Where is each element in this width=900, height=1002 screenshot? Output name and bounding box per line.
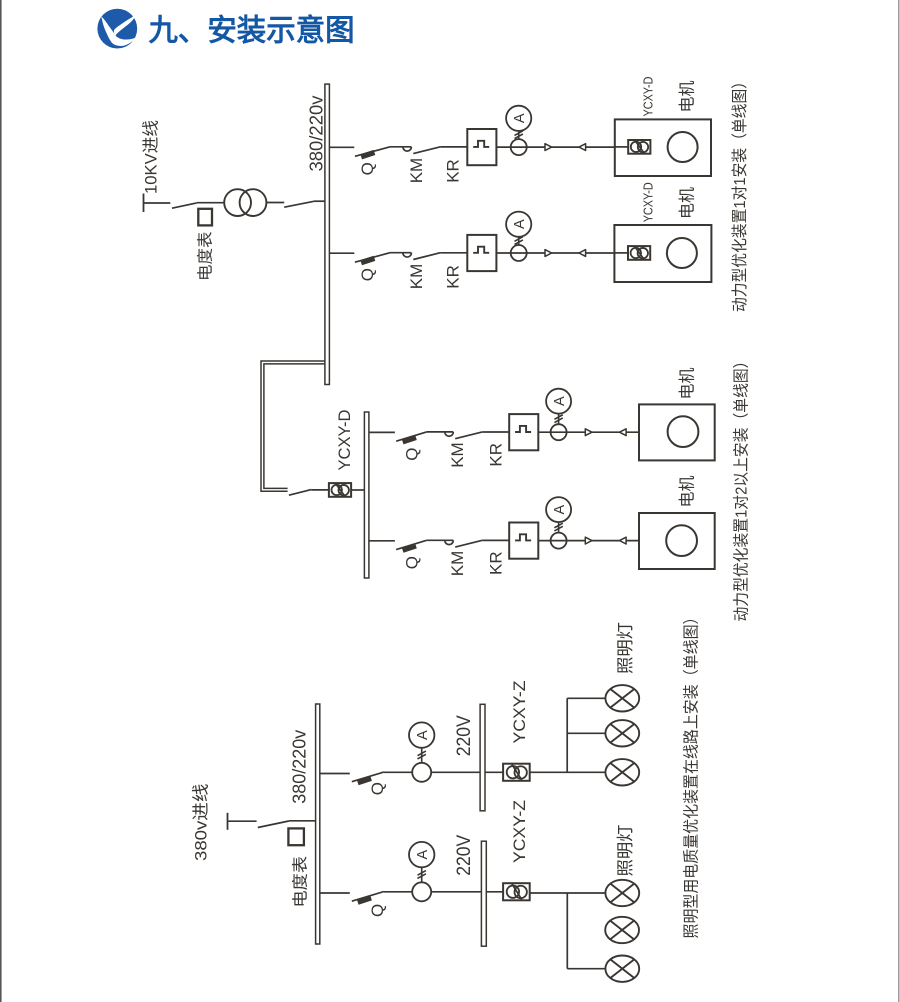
wire through 220V bar (S3A) bbox=[431, 771, 503, 773]
plug arrow left (S2B1) bbox=[620, 429, 627, 436]
contactor KM arc (S1B2) bbox=[403, 253, 412, 257]
svg-text:YCXY-D: YCXY-D bbox=[640, 77, 655, 117]
KR pulse symbol (S2B2) bbox=[515, 534, 531, 540]
svg-text:电机: 电机 bbox=[678, 367, 697, 399]
kWh meter square (section3) bbox=[288, 828, 304, 845]
svg-text:九、安装示意图: 九、安装示意图 bbox=[149, 14, 355, 48]
220V sub-busbar (S3A) bbox=[480, 704, 485, 811]
lamp riser (S3A) bbox=[566, 698, 568, 772]
svg-text:KM: KM bbox=[448, 551, 467, 577]
wire: branch S2B1 from busbar2 bbox=[369, 431, 395, 433]
plug arrow left (S1B1) bbox=[579, 144, 586, 151]
svg-text:电机: 电机 bbox=[678, 475, 697, 507]
CT circle + ammeter A (S3B) bbox=[409, 842, 434, 901]
section1 branch 2 bbox=[0, 0, 1, 1]
svg-text:KR: KR bbox=[487, 443, 506, 467]
section1 branch 1 bbox=[0, 0, 1, 1]
wire: 380v feed bbox=[228, 820, 257, 822]
plug arrow right (S1B2) bbox=[545, 250, 552, 257]
svg-text:220V: 220V bbox=[454, 715, 475, 756]
svg-text:A: A bbox=[552, 396, 568, 406]
CT circle + ammeter A (S2B2) bbox=[546, 497, 571, 548]
wire (S3B) bbox=[384, 891, 413, 893]
svg-text:YCXY-D: YCXY-D bbox=[335, 410, 354, 471]
svg-text:220V: 220V bbox=[454, 834, 475, 875]
svg-text:KR: KR bbox=[444, 159, 463, 183]
motor unit box 2 bbox=[614, 225, 711, 282]
svg-text:照明灯: 照明灯 bbox=[616, 825, 635, 877]
series device YCXY-D symbol (box2) bbox=[628, 246, 650, 260]
busbar 380/220v (section1) bbox=[325, 84, 330, 384]
svg-text:Q: Q bbox=[358, 162, 377, 175]
breaker Q black bar (S3A) bbox=[357, 776, 372, 785]
wire bbox=[266, 202, 284, 204]
motor unit box 1 bbox=[615, 119, 711, 176]
motor unit box 4 bbox=[639, 513, 715, 569]
wire (S1B1) bbox=[496, 146, 614, 148]
incoming terminal tick (section3) bbox=[227, 813, 229, 830]
wire: branch S2B2 from busbar2 bbox=[369, 540, 395, 542]
logo mark bbox=[97, 9, 137, 49]
svg-text:Q: Q bbox=[358, 268, 377, 281]
thermal relay KR box (S2B2) bbox=[509, 523, 538, 559]
svg-text:A: A bbox=[552, 504, 568, 514]
CT circle + ammeter A (S1B1) bbox=[506, 106, 531, 155]
220V sub-busbar (S3B) bbox=[481, 841, 486, 946]
motor unit box 3 bbox=[639, 404, 715, 460]
lamp stub row3 (S3B) bbox=[567, 968, 605, 970]
svg-text:电机: 电机 bbox=[678, 187, 697, 219]
wire (S2B2) bbox=[482, 539, 509, 541]
motor M1 circle bbox=[668, 132, 698, 162]
plug arrow right (S2B2) bbox=[585, 537, 592, 544]
contactor KM arc (S2B2) bbox=[445, 540, 454, 544]
wire bbox=[311, 489, 329, 491]
wire box to lamp (S3A) bbox=[530, 771, 606, 773]
thermal relay KR box (S2B1) bbox=[509, 414, 538, 450]
series device YCXY-D (on busbar2 feed) bbox=[329, 483, 351, 497]
svg-text:380/220v: 380/220v bbox=[290, 730, 310, 804]
svg-text:380/220v: 380/220v bbox=[306, 96, 326, 172]
svg-text:A: A bbox=[415, 730, 431, 740]
contactor KM blade (S2B1) bbox=[455, 432, 482, 439]
wire (S1B2) bbox=[440, 252, 467, 254]
thermal relay KR box (S1B2) bbox=[467, 235, 496, 271]
wire box to lamp (S3B) bbox=[530, 892, 606, 894]
wire (S1B2) bbox=[391, 252, 412, 254]
contactor KM arc (S2B1) bbox=[445, 432, 454, 436]
section2 branch 1 bbox=[0, 0, 1, 1]
wire bbox=[314, 200, 325, 202]
lamp L2 bbox=[605, 720, 639, 746]
svg-text:电机: 电机 bbox=[678, 80, 697, 112]
breaker Q black bar (S2B1) bbox=[402, 435, 417, 444]
wire (S1B1) bbox=[440, 146, 467, 148]
disconnect blade (section2 feed) bbox=[289, 490, 311, 496]
CT circle + ammeter A (S3A) bbox=[409, 722, 434, 781]
section3 branch A bbox=[0, 0, 1, 1]
kWh meter square bbox=[198, 209, 212, 226]
section2 branch 2 bbox=[0, 0, 1, 1]
svg-text:YCXY-Z: YCXY-Z bbox=[510, 681, 529, 744]
lamp L5 bbox=[605, 917, 639, 943]
svg-text:KM: KM bbox=[407, 264, 426, 290]
wire through 220V bar (S3B) bbox=[431, 891, 503, 893]
transformer T1 (two circles) bbox=[224, 189, 251, 216]
wire (S2B2) bbox=[538, 540, 639, 542]
svg-text:A: A bbox=[512, 219, 528, 229]
motor M3 circle bbox=[668, 416, 699, 447]
svg-text:动力型优化装置1对1安装（单线图）: 动力型优化装置1对1安装（单线图） bbox=[731, 74, 749, 312]
breaker Q black bar (S3B) bbox=[357, 895, 372, 904]
section3 branch B bbox=[0, 0, 1, 1]
wire (S2B1) bbox=[538, 431, 639, 433]
svg-text:KM: KM bbox=[448, 442, 467, 468]
incoming terminal tick bbox=[143, 194, 145, 213]
svg-text:YCXY-D: YCXY-D bbox=[640, 182, 655, 222]
breaker Q black bar (S1B1) bbox=[360, 150, 375, 159]
svg-text:照明型用电质量优化装置在线路上安装（单线图）: 照明型用电质量优化装置在线路上安装（单线图） bbox=[683, 610, 701, 939]
KR pulse symbol (S1B1) bbox=[473, 141, 489, 147]
breaker Q blade (S3B) bbox=[352, 892, 384, 902]
lamp L1 bbox=[605, 685, 639, 711]
disconnect switch blade (feed) bbox=[172, 203, 197, 208]
svg-text:A: A bbox=[512, 113, 528, 123]
plug arrow left (S2B2) bbox=[620, 537, 627, 544]
wire (S2B2) bbox=[427, 539, 454, 541]
wire (S2B1) bbox=[482, 431, 509, 433]
breaker Q black bar (S2B2) bbox=[402, 543, 417, 552]
wire: branch S1B1 from busbar bbox=[329, 146, 354, 148]
wire into box 2 bbox=[614, 252, 628, 254]
series device YCXY-Z (S3A) bbox=[503, 764, 530, 781]
wire: branch S1B2 from busbar bbox=[329, 252, 354, 254]
breaker Q blade (S1B2) bbox=[355, 253, 391, 263]
contactor KM blade (S1B1) bbox=[413, 147, 440, 154]
disconnect switch blade (section3 feed) bbox=[258, 821, 289, 828]
series device YCXY-Z (S3B) bbox=[503, 883, 530, 900]
wire bbox=[351, 489, 364, 491]
thermal relay KR box (S1B1) bbox=[467, 129, 496, 165]
lamp stub row2 (S3A) bbox=[567, 732, 605, 734]
lamp L4 bbox=[605, 880, 639, 906]
right page border bbox=[898, 0, 900, 1002]
wire: branch S3B from busbar3 bbox=[320, 892, 350, 894]
wire (S1B2) bbox=[496, 252, 614, 254]
plug arrow right (S2B1) bbox=[585, 429, 592, 436]
svg-text:Q: Q bbox=[403, 556, 422, 569]
svg-text:照明灯: 照明灯 bbox=[616, 622, 635, 674]
left page border bbox=[0, 0, 2, 1002]
breaker Q black bar (S1B2) bbox=[360, 256, 375, 265]
svg-text:380v进线: 380v进线 bbox=[192, 784, 211, 862]
plug arrow right (S1B1) bbox=[545, 144, 552, 151]
motor M4 circle bbox=[666, 525, 697, 556]
wire: branch S3A from busbar3 bbox=[320, 773, 350, 775]
svg-text:电度表: 电度表 bbox=[291, 856, 309, 908]
svg-text:Q: Q bbox=[368, 782, 387, 795]
svg-text:10KV进线: 10KV进线 bbox=[141, 120, 160, 194]
svg-text:A: A bbox=[415, 849, 431, 859]
lamp riser (S3B) bbox=[566, 893, 568, 969]
svg-text:动力型优化装置1对2以上安装（单线图）: 动力型优化装置1对2以上安装（单线图） bbox=[732, 354, 750, 622]
motor M2 circle bbox=[667, 238, 697, 268]
wire (S3A) bbox=[384, 771, 413, 773]
wire bbox=[289, 820, 316, 822]
KR pulse symbol (S1B2) bbox=[473, 247, 489, 253]
breaker Q blade (S1B1) bbox=[355, 147, 391, 157]
busbar section2 bbox=[364, 412, 369, 578]
contactor KM blade (S2B2) bbox=[455, 540, 482, 547]
wire (S1B1) bbox=[391, 146, 412, 148]
disconnect switch blade (to busbar) bbox=[284, 201, 314, 207]
svg-text:KR: KR bbox=[487, 551, 506, 575]
breaker Q blade (S2B2) bbox=[396, 540, 426, 549]
lamp L6 bbox=[605, 956, 639, 982]
plug arrow left (S1B2) bbox=[579, 250, 586, 257]
CT circle + ammeter A (S1B2) bbox=[506, 212, 531, 261]
svg-text:KM: KM bbox=[407, 158, 426, 184]
busbar section3 bbox=[316, 704, 320, 944]
wire bbox=[197, 202, 225, 204]
series device YCXY-D symbol (box1) bbox=[628, 140, 650, 154]
svg-text:Q: Q bbox=[403, 448, 422, 461]
wire (S2B1) bbox=[427, 431, 454, 433]
svg-text:Q: Q bbox=[368, 904, 387, 917]
CT circle + ammeter A (S2B1) bbox=[546, 389, 571, 441]
breaker Q blade (S3A) bbox=[352, 772, 384, 782]
double-line cable from busbar1 to section2 bbox=[261, 361, 325, 491]
wire into box 1 bbox=[615, 146, 628, 148]
svg-text:KR: KR bbox=[444, 265, 463, 289]
lamp L3 bbox=[605, 759, 639, 785]
contactor KM blade (S1B2) bbox=[413, 253, 440, 260]
svg-text:YCXY-Z: YCXY-Z bbox=[510, 800, 529, 863]
wire: 10KV feed bbox=[144, 202, 171, 204]
svg-text:电度表: 电度表 bbox=[197, 232, 215, 282]
KR pulse symbol (S2B1) bbox=[515, 426, 531, 432]
lamp stub row1 (S3A) bbox=[567, 697, 605, 699]
contactor KM arc (S1B1) bbox=[403, 147, 412, 151]
breaker Q blade (S2B1) bbox=[396, 432, 426, 441]
